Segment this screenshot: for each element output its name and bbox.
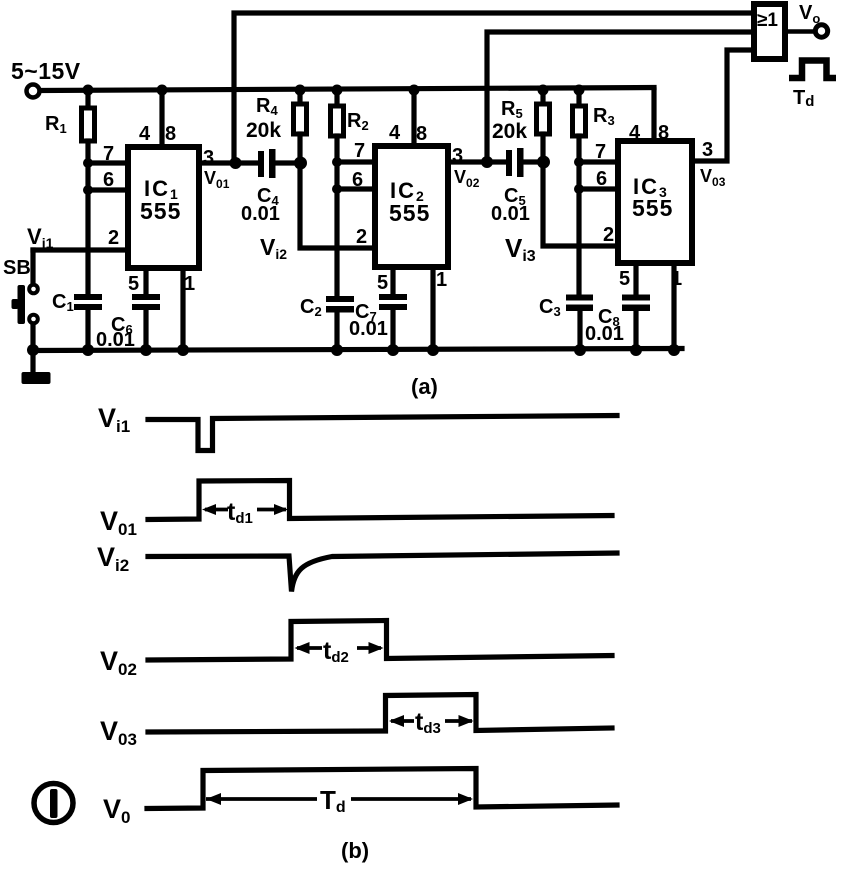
svg-text:6: 6 [596,168,607,190]
svg-text:3: 3 [452,145,463,167]
svg-text:2: 2 [356,226,367,248]
svg-text:5: 5 [128,273,139,295]
svg-text:5: 5 [377,272,388,294]
svg-text:C3: C3 [539,296,561,319]
svg-text:C1: C1 [52,291,74,314]
svg-text:555: 555 [389,200,430,226]
svg-text:8: 8 [165,123,176,145]
svg-text:0.01: 0.01 [349,318,388,340]
svg-text:V02: V02 [454,167,480,190]
svg-text:R2: R2 [347,110,369,133]
svg-text:5~15V: 5~15V [11,58,81,84]
svg-text:≥1: ≥1 [757,10,778,31]
svg-text:Vi2: Vi2 [260,234,287,262]
svg-text:0.01: 0.01 [491,203,530,225]
svg-text:2: 2 [603,224,614,246]
svg-text:5: 5 [619,268,630,290]
svg-text:V02: V02 [100,646,137,679]
svg-text:td2: td2 [323,637,349,666]
svg-text:Vi3: Vi3 [505,233,536,265]
svg-text:555: 555 [632,195,673,221]
svg-text:555: 555 [140,198,181,224]
svg-text:0.01: 0.01 [96,329,135,351]
svg-text:6: 6 [352,169,363,191]
svg-text:7: 7 [595,141,606,163]
svg-text:7: 7 [103,143,114,165]
svg-text:8: 8 [416,123,427,145]
svg-text:Vo: Vo [799,2,820,26]
svg-text:V01: V01 [100,506,137,539]
svg-text:td3: td3 [415,708,441,737]
svg-text:1: 1 [671,268,682,290]
svg-text:V03: V03 [100,716,137,749]
svg-text:1: 1 [184,273,195,295]
svg-text:Vi1: Vi1 [27,224,54,251]
svg-text:V03: V03 [700,166,726,189]
svg-text:R4: R4 [256,95,278,118]
svg-text:V0: V0 [103,794,130,827]
svg-text:20k: 20k [492,120,527,143]
svg-text:(b): (b) [341,838,369,863]
svg-text:0.01: 0.01 [241,203,280,225]
svg-text:0.01: 0.01 [585,323,624,345]
svg-text:Vi2: Vi2 [97,542,129,575]
svg-text:3: 3 [203,147,214,169]
svg-text:C2: C2 [300,296,322,319]
svg-text:Td: Td [793,87,814,110]
svg-text:R5: R5 [501,98,523,121]
svg-text:8: 8 [658,122,669,144]
svg-text:(a): (a) [411,374,438,399]
svg-text:2: 2 [108,227,119,249]
svg-text:R3: R3 [593,105,615,128]
svg-text:1: 1 [436,269,447,291]
svg-text:SB: SB [3,257,31,279]
svg-text:4: 4 [629,122,641,144]
svg-text:td1: td1 [227,498,253,527]
svg-text:R1: R1 [45,113,67,136]
svg-text:7: 7 [354,140,365,162]
svg-text:20k: 20k [246,119,281,142]
svg-text:4: 4 [389,122,401,144]
svg-text:6: 6 [103,169,114,191]
svg-text:4: 4 [139,123,151,145]
svg-text:3: 3 [702,139,713,161]
svg-text:V01: V01 [204,168,230,191]
svg-text:Td: Td [320,785,346,816]
svg-text:Vi1: Vi1 [98,403,130,436]
